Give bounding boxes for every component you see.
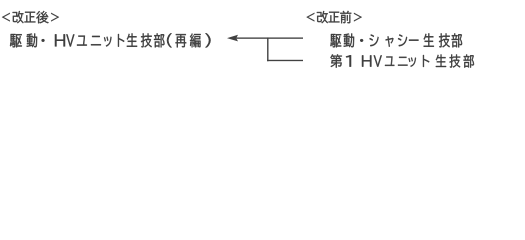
- wire top horizontal: [237, 37, 304, 38]
- text new dept name: [10, 33, 211, 47]
- text old dept 1 name: [330, 33, 462, 47]
- text kaisei-mae label: [306, 11, 361, 23]
- wire bottom horizontal: [267, 60, 303, 61]
- text kaisei-go label: [2, 11, 59, 23]
- arrowhead: [227, 35, 238, 42]
- text old dept 2 name: [330, 54, 474, 67]
- wire vertical branch: [267, 37, 268, 61]
